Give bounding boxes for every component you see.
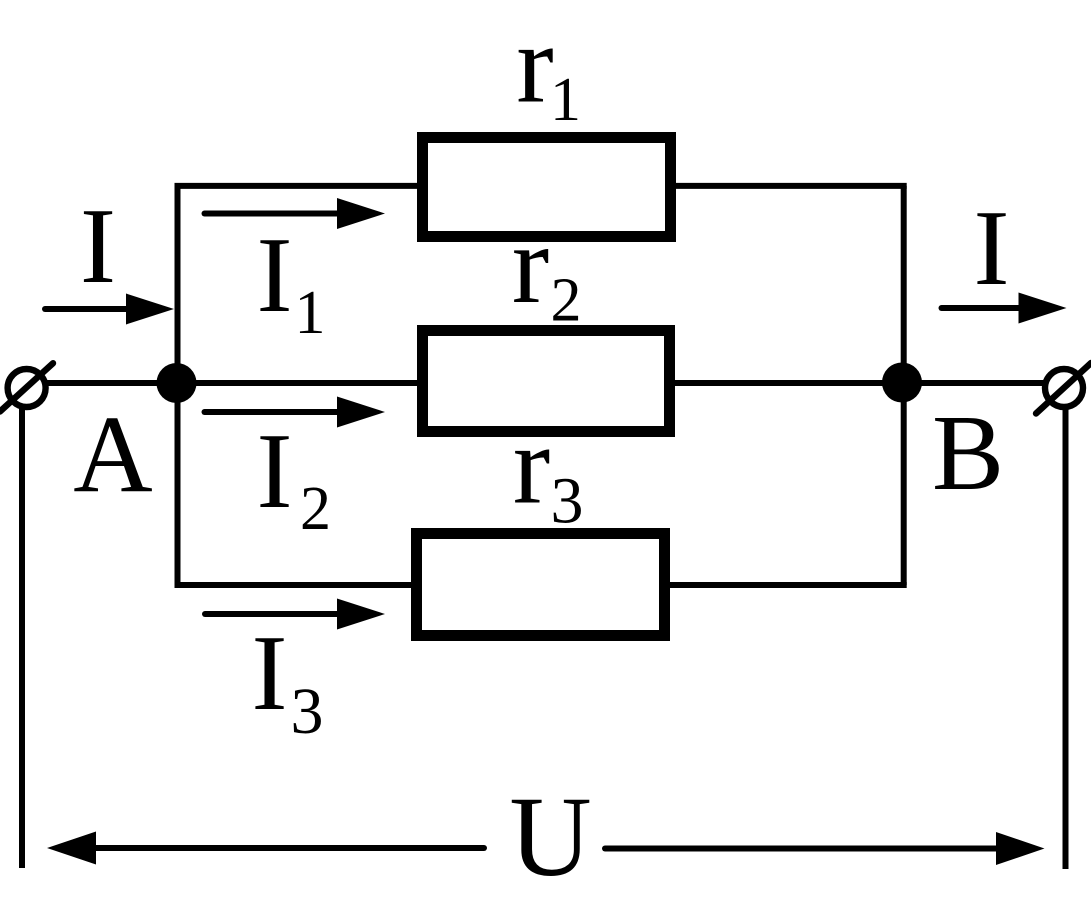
svg-text:3: 3 — [551, 465, 584, 538]
svg-text:I: I — [974, 189, 1010, 308]
svg-text:r: r — [512, 203, 549, 327]
svg-text:I: I — [80, 187, 116, 306]
svg-text:2: 2 — [551, 267, 582, 335]
svg-text:r: r — [513, 404, 550, 528]
svg-text:I: I — [257, 216, 293, 335]
svg-text:I: I — [257, 412, 293, 531]
svg-text:2: 2 — [300, 475, 331, 543]
svg-text:1: 1 — [550, 66, 581, 134]
svg-text:A: A — [73, 393, 152, 515]
svg-text:B: B — [932, 394, 1004, 513]
svg-text:I: I — [252, 614, 288, 733]
svg-text:3: 3 — [291, 675, 324, 748]
svg-text:r: r — [516, 3, 553, 127]
svg-text:1: 1 — [295, 279, 326, 347]
svg-text:U: U — [509, 773, 591, 900]
